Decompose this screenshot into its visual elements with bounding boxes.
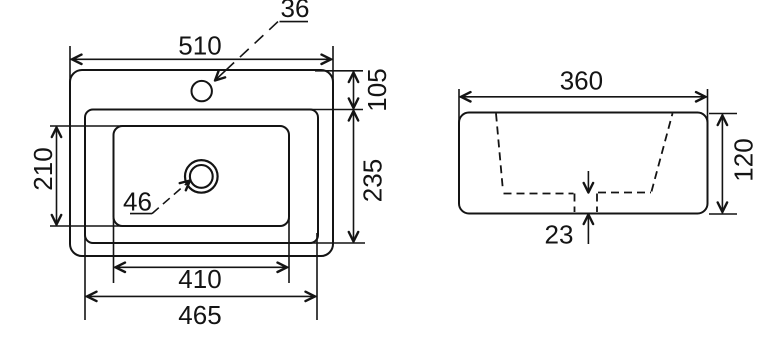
- svg-text:360: 360: [560, 65, 603, 95]
- svg-text:465: 465: [178, 300, 221, 330]
- svg-text:510: 510: [178, 31, 221, 61]
- svg-text:235: 235: [358, 159, 388, 202]
- svg-text:105: 105: [362, 68, 392, 111]
- svg-text:36: 36: [281, 0, 310, 23]
- svg-text:210: 210: [28, 147, 58, 190]
- svg-text:46: 46: [123, 187, 152, 217]
- svg-text:23: 23: [545, 220, 574, 250]
- svg-text:120: 120: [729, 138, 759, 181]
- svg-text:410: 410: [178, 264, 221, 294]
